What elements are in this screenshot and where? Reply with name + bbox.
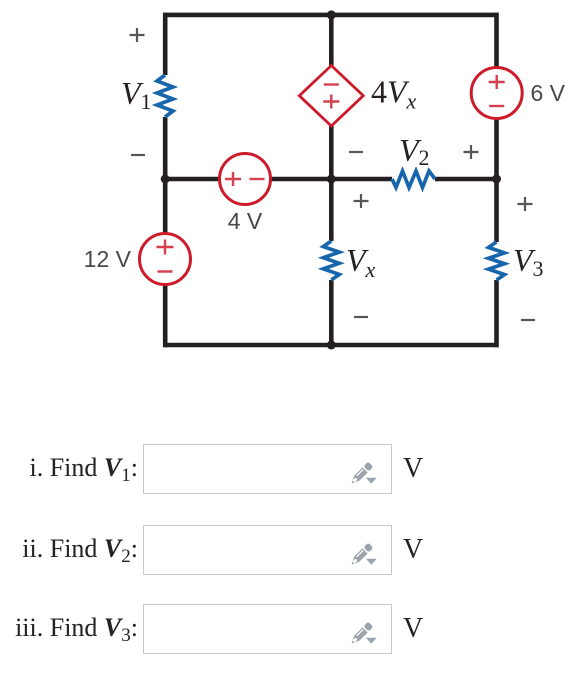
- svg-text:4 V: 4 V: [228, 208, 263, 234]
- wire middle horizontal left of 4V source: [165, 177, 220, 182]
- wire middle horizontal right of V2: [435, 177, 497, 182]
- question row ii: [0, 0, 1, 1]
- answer pencil icon row i: [350, 458, 380, 486]
- question row i: [0, 0, 1, 1]
- question row iii: [0, 0, 1, 1]
- wire bottom (165,344.5)-(496.5,344.5): [163, 343, 499, 348]
- wire right segment between 6V source and middle node: [494, 119, 499, 179]
- voltage source 12V circle: [140, 234, 191, 285]
- svg-text:4Vx: 4Vx: [371, 74, 417, 114]
- wire center vertical below Vx: [329, 280, 334, 347]
- resistor Vx zigzag: [323, 241, 339, 280]
- svg-text:V1: V1: [121, 75, 152, 114]
- resistor V3 zigzag: [489, 242, 505, 280]
- node junction dot bottom center: [327, 341, 336, 350]
- 4V minus sign: [250, 178, 265, 180]
- plus sign right of V2: [464, 145, 479, 159]
- svg-text:V3: V3: [513, 242, 544, 281]
- wire center vertical between middle node and resistor Vx: [329, 179, 334, 241]
- wire right lower segment below V3: [494, 280, 499, 347]
- plus sign above V3: [518, 197, 533, 211]
- wire left lower segment below 12V source: [163, 285, 168, 348]
- resistor V1 zigzag: [157, 75, 173, 117]
- 12V minus sign: [158, 270, 173, 272]
- 12V plus sign: [157, 240, 174, 255]
- wire center vertical above diamond source: [329, 13, 334, 66]
- node junction dot top center: [327, 10, 336, 19]
- dependent source 4Vx diamond: [299, 66, 363, 127]
- minus sign below V3: [521, 319, 535, 321]
- 6V plus sign: [489, 75, 505, 89]
- minus sign below Vx: [354, 316, 368, 318]
- voltage source 4V circle: [220, 154, 271, 205]
- 4V plus sign: [225, 172, 241, 186]
- answer pencil icon row ii: [350, 539, 380, 567]
- minus sign below V1: [131, 154, 145, 156]
- answer pencil icon row iii: [350, 618, 380, 646]
- node junction dot left middle: [161, 175, 170, 184]
- wire right upper segment above 6V source: [494, 13, 499, 68]
- wire middle horizontal between 4V source and resistor V2: [271, 177, 393, 182]
- minus sign left of V2: [349, 151, 363, 153]
- wire left middle segment between V1 and 12V source: [163, 117, 168, 234]
- svg-text:V2: V2: [399, 132, 430, 170]
- wire right segment between middle node and resistor V3: [494, 179, 499, 242]
- 6V minus sign: [489, 105, 504, 107]
- node junction dot center middle: [327, 175, 336, 184]
- resistor V2 zigzag: [392, 171, 435, 188]
- svg-text:12 V: 12 V: [84, 246, 132, 272]
- wire left upper segment above resistor V1: [163, 13, 168, 75]
- plus sign above Vx: [354, 194, 369, 208]
- wire center vertical between diamond and middle node: [329, 126, 334, 179]
- voltage source 6V circle: [471, 68, 522, 119]
- node junction dot right middle: [492, 175, 501, 184]
- svg-text:Vx: Vx: [346, 242, 376, 282]
- svg-text:6 V: 6 V: [531, 80, 566, 106]
- diamond plus sign: [323, 95, 339, 109]
- diamond minus sign: [324, 83, 339, 85]
- plus sign above V1: [130, 28, 145, 42]
- wire top (165,14)-(496,14): [163, 13, 499, 18]
